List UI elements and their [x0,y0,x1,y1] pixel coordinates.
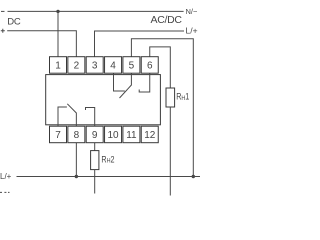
svg-text:L/+: L/+ [0,172,12,181]
svg-text:RH2: RH2 [101,155,115,165]
label plus (DC supply +) [1,29,5,33]
svg-text:11: 11 [126,130,137,141]
wire terminal 8 to bottom L/+ line [75,143,77,177]
resistor RH2 [91,151,99,170]
wire RH2 bottom crossing L/+ line [94,170,96,194]
terminal 9 [86,126,103,143]
wire terminal 6 loop to RH1 [150,47,171,88]
svg-text:L/+: L/+ [186,26,198,36]
svg-text:DC: DC [7,16,21,27]
svg-text:5: 5 [129,60,135,71]
junction dot N line / terminal 1 drop [56,10,59,13]
terminal 12 [141,126,158,143]
resistor RH1 [166,88,175,107]
svg-text:8: 8 [74,130,80,141]
contact NO hook terminal 9 [86,108,95,127]
contact NC hook terminal 4 [114,73,125,92]
svg-text:2: 2 [74,60,80,71]
wire terminal 9 to RH2 [94,143,96,151]
terminal 1 [50,57,67,73]
wire RH1 bottom crossing L/+ line [169,107,171,196]
svg-text:1: 1 [55,60,61,71]
terminal 5 [123,57,140,73]
terminal 11 [123,126,140,143]
label RH2 [101,155,115,165]
contact blade terminal 8 [67,104,76,127]
svg-text:9: 9 [92,130,98,141]
wire L/+ top line to terminal 3 [95,31,185,57]
terminal 7 [50,126,67,143]
svg-text:10: 10 [107,130,119,141]
wire + line to terminal 2 [7,31,76,57]
contact blade terminal 5 [120,73,132,99]
wire terminal 1 drop [57,11,59,56]
terminal 4 [105,57,122,73]
label RH1 [176,92,190,102]
label minus (DC supply -) [1,10,5,12]
terminal 3 [86,57,103,73]
svg-text:3: 3 [92,60,98,71]
terminal 8 [68,126,85,143]
wire N/- top line [8,10,184,12]
junction dot terminal 8 on bottom L/+ line [75,175,78,178]
terminal 10 [105,126,122,143]
wire terminal 5 loop to right rail [131,39,193,177]
terminal 6 [141,57,158,73]
svg-text:N/−: N/− [186,7,199,16]
contact NO hook terminal 6 [139,73,150,93]
terminal 2 [68,57,85,73]
relay body [46,75,161,125]
contact NC hook terminal 7 [58,107,67,126]
svg-text:6: 6 [147,60,153,71]
svg-text:12: 12 [144,130,156,141]
wire bottom L/+ line [17,176,201,178]
svg-text:4: 4 [110,60,116,71]
junction dot right rail on bottom L/+ line [192,175,195,178]
svg-text:AC/DC: AC/DC [151,14,183,26]
svg-text:7: 7 [55,130,61,141]
svg-text:RH1: RH1 [176,92,190,102]
continuation dashes bottom left [0,191,10,193]
